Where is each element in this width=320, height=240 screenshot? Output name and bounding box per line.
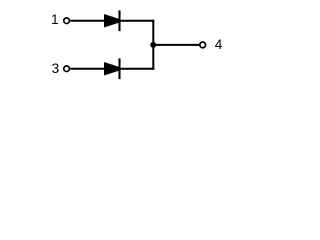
diode D2 cathode bar [118, 58, 120, 79]
wire D2 cathode to bottom-right corner [120, 68, 155, 70]
junction node [150, 42, 156, 48]
wire pin 1 to D1 anode [70, 20, 104, 22]
svg-text:4: 4 [215, 37, 223, 52]
pin 4 terminal [200, 42, 206, 48]
diode D1 triangle [104, 14, 120, 28]
wire pin 3 to D2 anode [70, 68, 104, 70]
diode D2 triangle [104, 62, 120, 76]
wire D1 cathode to top-right corner [120, 20, 155, 22]
vertical wire joining cathodes [152, 20, 154, 70]
svg-text:1: 1 [51, 12, 59, 27]
pin 3 terminal [64, 66, 70, 72]
wire junction to pin 4 [153, 44, 199, 46]
diode D1 cathode bar [118, 10, 120, 31]
svg-text:3: 3 [52, 61, 60, 76]
pin 1 terminal [64, 18, 70, 24]
